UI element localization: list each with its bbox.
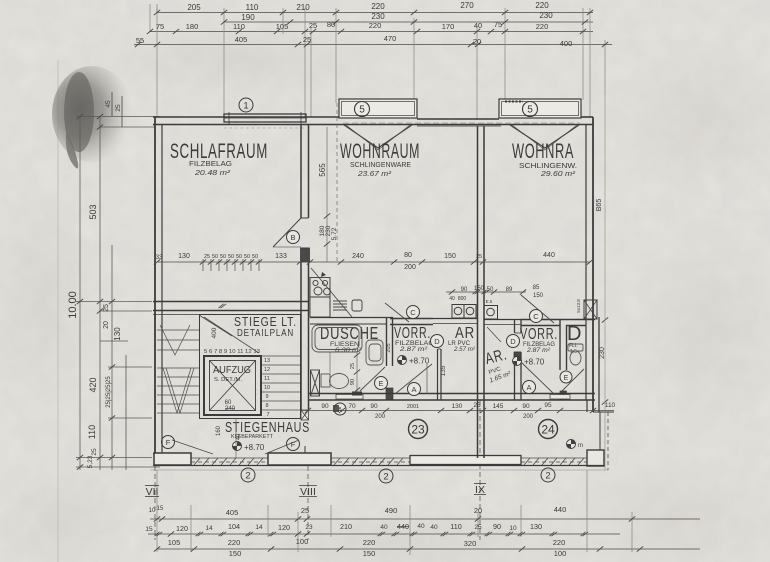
dim ticks below stiegenhaus <box>235 418 237 458</box>
svg-text:270: 270 <box>460 1 474 10</box>
dim line C <box>150 31 593 33</box>
bottom axis dashed lines <box>155 400 480 540</box>
top dim extension verticals <box>157 8 605 120</box>
svg-text:23: 23 <box>305 524 313 531</box>
svg-text:440: 440 <box>543 252 555 259</box>
VORR24 top wall <box>521 319 595 321</box>
svg-text:40: 40 <box>236 434 242 440</box>
svg-text:503: 503 <box>88 204 98 219</box>
AR23 top counter <box>433 318 477 320</box>
dim line D <box>134 44 612 46</box>
svg-text:FILZBELAG: FILZBELAG <box>189 161 232 168</box>
elevator AUFZUG <box>204 356 261 415</box>
horizontal extension lines <box>76 116 160 118</box>
svg-text:C: C <box>533 312 539 321</box>
svg-text:2: 2 <box>545 471 550 482</box>
svg-text:420: 420 <box>88 377 98 392</box>
svg-text:25: 25 <box>301 506 309 515</box>
svg-text:2001: 2001 <box>407 404 419 410</box>
svg-text:130: 130 <box>113 327 122 341</box>
svg-text:AR: AR <box>455 325 475 342</box>
window swing diagonals <box>172 440 299 454</box>
svg-text:145: 145 <box>493 403 504 410</box>
svg-text:5,23: 5,23 <box>87 455 94 468</box>
svg-text:D: D <box>567 323 582 345</box>
ticks bottom row F <box>154 531 588 536</box>
svg-text:104: 104 <box>228 522 240 531</box>
svg-text:100: 100 <box>554 549 567 558</box>
svg-text:10: 10 <box>264 385 270 391</box>
svg-text:50: 50 <box>212 254 218 260</box>
svg-text:205: 205 <box>187 3 201 12</box>
window d hatched band <box>521 458 587 465</box>
svg-text:75: 75 <box>494 20 502 29</box>
svg-text:50: 50 <box>228 254 234 260</box>
window W2 opening V <box>344 125 412 150</box>
interior dim chain y=262 <box>157 259 590 271</box>
window a hatched band <box>191 458 268 465</box>
svg-text:40: 40 <box>474 21 482 30</box>
svg-text:170: 170 <box>442 22 455 31</box>
svg-text:25: 25 <box>115 104 122 112</box>
dim line A <box>157 12 593 14</box>
ticks row D <box>135 42 608 47</box>
circled F left <box>162 436 175 449</box>
band bottom wall <box>308 393 595 395</box>
svg-text:110: 110 <box>233 22 245 31</box>
svg-text:A: A <box>526 383 531 392</box>
svg-text:565: 565 <box>318 163 327 177</box>
svg-text:200: 200 <box>375 414 386 420</box>
svg-text:13: 13 <box>264 358 270 364</box>
svg-text:25: 25 <box>309 21 317 30</box>
svg-text:E: E <box>564 375 569 382</box>
bottom dim labels row F <box>145 522 542 533</box>
svg-text:50: 50 <box>236 254 242 260</box>
window W3 + label 5 <box>499 99 581 118</box>
svg-text:95: 95 <box>544 402 552 409</box>
schlafraum door swing + circle B <box>273 218 301 247</box>
svg-text:120: 120 <box>278 523 290 532</box>
svg-text:9: 9 <box>265 394 268 400</box>
axis labels <box>145 484 486 499</box>
right wall <box>586 117 614 470</box>
svg-text:29.60 m²: 29.60 m² <box>540 169 576 178</box>
svg-text:B65: B65 <box>596 199 603 212</box>
svg-text:WOHNRA: WOHNRA <box>512 140 574 163</box>
svg-text:8: 8 <box>265 403 268 409</box>
svg-text:240: 240 <box>352 253 364 260</box>
treads left of stairwell <box>157 368 199 413</box>
svg-text:220: 220 <box>535 1 549 10</box>
wall H1 schlafraum bottom / stair top <box>153 302 308 315</box>
circled F right <box>287 438 300 451</box>
svg-text:VORR.: VORR. <box>520 326 558 343</box>
svg-text:90: 90 <box>321 403 329 410</box>
svg-text:100: 100 <box>296 537 309 546</box>
svg-text:23: 23 <box>411 423 425 437</box>
svg-text:14: 14 <box>205 525 213 532</box>
svg-text:220: 220 <box>553 538 566 547</box>
treads right of elevator <box>261 356 300 410</box>
svg-text:11: 11 <box>264 376 270 382</box>
cooktop 24 <box>484 306 498 320</box>
svg-text:45: 45 <box>105 100 112 108</box>
svg-text:150: 150 <box>229 549 242 558</box>
svg-text:20: 20 <box>474 506 482 515</box>
svg-text:50: 50 <box>487 287 494 293</box>
dim row above cooktops <box>446 291 526 293</box>
svg-text:2: 2 <box>245 471 250 482</box>
svg-text:20: 20 <box>473 37 481 46</box>
bottom dim labels row G <box>168 537 567 558</box>
svg-text:10.00: 10.00 <box>67 291 79 319</box>
svg-text:40: 40 <box>449 296 455 302</box>
svg-text:150: 150 <box>444 253 456 260</box>
window b hatched band <box>331 458 410 465</box>
svg-text:90: 90 <box>350 379 356 385</box>
left wall <box>155 117 162 466</box>
level symbol <box>233 442 242 451</box>
svg-text:12: 12 <box>264 367 270 373</box>
svg-text:+8.70: +8.70 <box>244 443 265 452</box>
level symbol near 24 <box>567 440 576 449</box>
svg-text:133: 133 <box>275 253 287 260</box>
svg-text:15: 15 <box>157 506 164 512</box>
svg-text:25: 25 <box>91 448 98 456</box>
svg-text:7: 7 <box>266 412 269 418</box>
svg-text:25: 25 <box>204 254 210 260</box>
svg-text:2.87 m²: 2.87 m² <box>399 346 428 353</box>
svg-text:2.57 m²: 2.57 m² <box>453 346 476 353</box>
svg-text:90: 90 <box>370 403 378 410</box>
bottom dim labels row E <box>149 505 567 517</box>
dusche door diag + E <box>360 367 385 391</box>
AR24/VORR24 partition <box>514 319 516 333</box>
svg-text:SCHLINGENWARE: SCHLINGENWARE <box>350 162 411 169</box>
left rotated labels <box>67 204 122 468</box>
svg-text:160: 160 <box>216 425 222 436</box>
svg-text:25: 25 <box>303 35 311 44</box>
scan smudge top-left <box>52 66 132 162</box>
wall V2 between WOHNRAUM and WOHNRA <box>478 126 485 458</box>
wall V1 between SCHLAFRAUM and WOHNRAUM <box>301 124 310 420</box>
top dim labels row D <box>136 34 572 48</box>
svg-text:130: 130 <box>452 403 463 410</box>
svg-text:25: 25 <box>474 524 482 531</box>
top dim labels row A <box>187 1 549 12</box>
stove lines <box>333 300 347 302</box>
dusche interior dim <box>330 352 357 392</box>
svg-text:10: 10 <box>509 525 517 532</box>
svg-text:40: 40 <box>380 524 388 531</box>
svg-text:105: 105 <box>168 538 181 547</box>
D right wall / shaft <box>584 300 597 319</box>
svg-text:50: 50 <box>252 254 258 260</box>
svg-text:405: 405 <box>226 508 239 517</box>
svg-text:220: 220 <box>228 538 241 547</box>
svg-text:190: 190 <box>241 13 255 22</box>
svg-text:110: 110 <box>450 522 461 531</box>
dashed wall centerline right part <box>343 122 580 124</box>
svg-text:220: 220 <box>371 2 385 11</box>
svg-text:400: 400 <box>560 39 573 48</box>
corner block bottom-right <box>587 450 604 466</box>
stairwell inner boundary <box>200 315 301 419</box>
svg-text:230: 230 <box>539 11 553 20</box>
svg-text:33: 33 <box>156 255 163 261</box>
svg-text:E: E <box>378 379 383 388</box>
svg-text:320: 320 <box>464 539 477 548</box>
window W2 + label 5 <box>339 99 417 118</box>
svg-text:120: 120 <box>176 524 188 533</box>
svg-text:VORR.: VORR. <box>394 325 431 342</box>
svg-text:40: 40 <box>430 524 438 531</box>
svg-text:105: 105 <box>276 22 289 31</box>
ticks bottom row E <box>154 516 635 521</box>
ticks row A <box>154 10 593 15</box>
svg-text:210: 210 <box>296 3 310 12</box>
svg-text:110: 110 <box>605 402 616 409</box>
svg-text:150: 150 <box>474 286 485 292</box>
svg-text:2: 2 <box>383 472 388 483</box>
svg-text:70: 70 <box>348 403 356 410</box>
svg-text:WOHNRAUM: WOHNRAUM <box>340 140 420 163</box>
kitchen door diagonal <box>311 268 352 317</box>
svg-text:135: 135 <box>440 365 447 376</box>
svg-text:150: 150 <box>363 549 376 558</box>
svg-text:20: 20 <box>103 321 110 329</box>
circled B on bottom wall <box>334 403 346 415</box>
svg-text:75: 75 <box>156 22 164 31</box>
stair direction diagonal <box>199 315 259 353</box>
svg-text:200: 200 <box>523 414 534 420</box>
svg-text:90: 90 <box>493 522 501 531</box>
svg-text:5: 5 <box>359 105 365 116</box>
svg-text:24: 24 <box>541 423 555 437</box>
svg-text:E.5: E.5 <box>486 299 493 304</box>
svg-text:40: 40 <box>417 523 425 530</box>
svg-text:SCHLAFRAUM: SCHLAFRAUM <box>170 140 268 163</box>
small scribbles above smudge <box>112 92 122 127</box>
window circled 2 labels <box>241 468 255 482</box>
svg-text:470: 470 <box>384 34 397 43</box>
VORR1/AR23 partition <box>437 349 439 400</box>
svg-text:89: 89 <box>506 287 513 293</box>
AR24 top counter <box>484 319 521 321</box>
svg-text:230: 230 <box>371 12 385 21</box>
svg-text:F: F <box>166 438 171 447</box>
svg-text:800: 800 <box>458 296 467 302</box>
window W1 + label 1 <box>224 112 306 124</box>
svg-text:B: B <box>290 233 295 242</box>
cooktop 23 <box>452 305 476 319</box>
svg-text:80: 80 <box>327 20 335 29</box>
svg-text:405: 405 <box>235 35 248 44</box>
svg-text:85: 85 <box>533 285 540 291</box>
svg-text:220: 220 <box>536 22 549 31</box>
svg-text:14: 14 <box>255 524 263 531</box>
svg-text:25: 25 <box>473 402 481 409</box>
svg-text:D: D <box>510 337 516 346</box>
svg-text:1: 1 <box>243 101 248 112</box>
svg-text:90: 90 <box>522 403 530 410</box>
svg-text:15: 15 <box>145 526 153 533</box>
svg-text:210: 210 <box>340 522 352 531</box>
window W3 opening V <box>510 125 579 150</box>
svg-text:90: 90 <box>461 287 468 293</box>
svg-text:130: 130 <box>178 253 190 260</box>
svg-text:50: 50 <box>220 254 226 260</box>
svg-text:180: 180 <box>186 22 199 31</box>
svg-text:220: 220 <box>363 538 376 547</box>
dim line B <box>224 21 593 23</box>
svg-text:400: 400 <box>211 327 218 338</box>
WC dusche <box>321 374 349 389</box>
svg-text:5 6 7 8 9 10 11 12 13: 5 6 7 8 9 10 11 12 13 <box>204 349 260 355</box>
ticks bottom row G <box>154 546 643 551</box>
washbasin right <box>366 340 383 365</box>
svg-text:110: 110 <box>246 3 259 12</box>
DUSCHE right wall <box>386 317 388 366</box>
svg-text:A: A <box>411 385 416 394</box>
pier B <box>268 453 331 465</box>
top dim labels row B <box>241 11 553 22</box>
svg-text:110: 110 <box>87 425 97 439</box>
svg-text:DETAILPLAN: DETAILPLAN <box>237 328 294 339</box>
svg-text:200: 200 <box>404 264 416 271</box>
VORR1 top wall <box>390 318 433 320</box>
svg-text:25: 25 <box>103 304 110 312</box>
bottom wall band <box>150 454 608 471</box>
top dim labels row C <box>156 20 548 31</box>
left upper treads region <box>157 325 199 355</box>
WC in D <box>568 344 583 365</box>
svg-text:205: 205 <box>386 343 392 352</box>
svg-text:220: 220 <box>369 21 382 30</box>
svg-text:25|25|25|25: 25|25|25|25 <box>106 376 112 408</box>
svg-text:150: 150 <box>533 293 544 299</box>
left paper edge <box>57 60 59 562</box>
svg-text:490: 490 <box>385 506 398 515</box>
svg-text:25: 25 <box>350 363 356 369</box>
ticks row C <box>147 29 586 34</box>
pier A <box>154 453 191 465</box>
svg-text:50: 50 <box>244 254 250 260</box>
svg-text:+8.70: +8.70 <box>524 358 545 367</box>
svg-text:23.67 m²: 23.67 m² <box>357 169 392 178</box>
svg-text:240: 240 <box>225 406 236 412</box>
svg-text:55: 55 <box>136 36 144 45</box>
svg-text:20.48 m²: 20.48 m² <box>194 168 231 177</box>
bathtub <box>312 325 362 352</box>
svg-text:80: 80 <box>404 252 412 259</box>
svg-text:10: 10 <box>149 508 156 514</box>
VORR24/D wall <box>559 319 561 370</box>
svg-text:130: 130 <box>530 522 542 531</box>
window c white bar <box>410 456 521 465</box>
bottom dim extension verticals <box>157 470 632 555</box>
svg-text:2.87 m²: 2.87 m² <box>526 347 551 354</box>
svg-text:D: D <box>434 337 440 346</box>
svg-text:5x13.8: 5x13.8 <box>576 299 581 313</box>
svg-text:AUFZUG: AUFZUG <box>213 364 251 376</box>
thresholds <box>336 395 363 400</box>
top wall <box>153 117 593 126</box>
svg-text:440: 440 <box>554 505 567 514</box>
door diagonals VORR1 <box>385 303 409 322</box>
svg-text:C: C <box>410 308 416 317</box>
svg-text:5: 5 <box>527 105 533 116</box>
svg-text:m: m <box>578 443 583 449</box>
svg-text:25: 25 <box>476 254 482 260</box>
svg-text:S. DET./M.: S. DET./M. <box>214 377 243 383</box>
shaft with X <box>311 370 320 396</box>
svg-text:440: 440 <box>397 522 409 531</box>
svg-text:STIEGE LT.: STIEGE LT. <box>234 315 297 329</box>
ticks row B <box>221 19 588 24</box>
